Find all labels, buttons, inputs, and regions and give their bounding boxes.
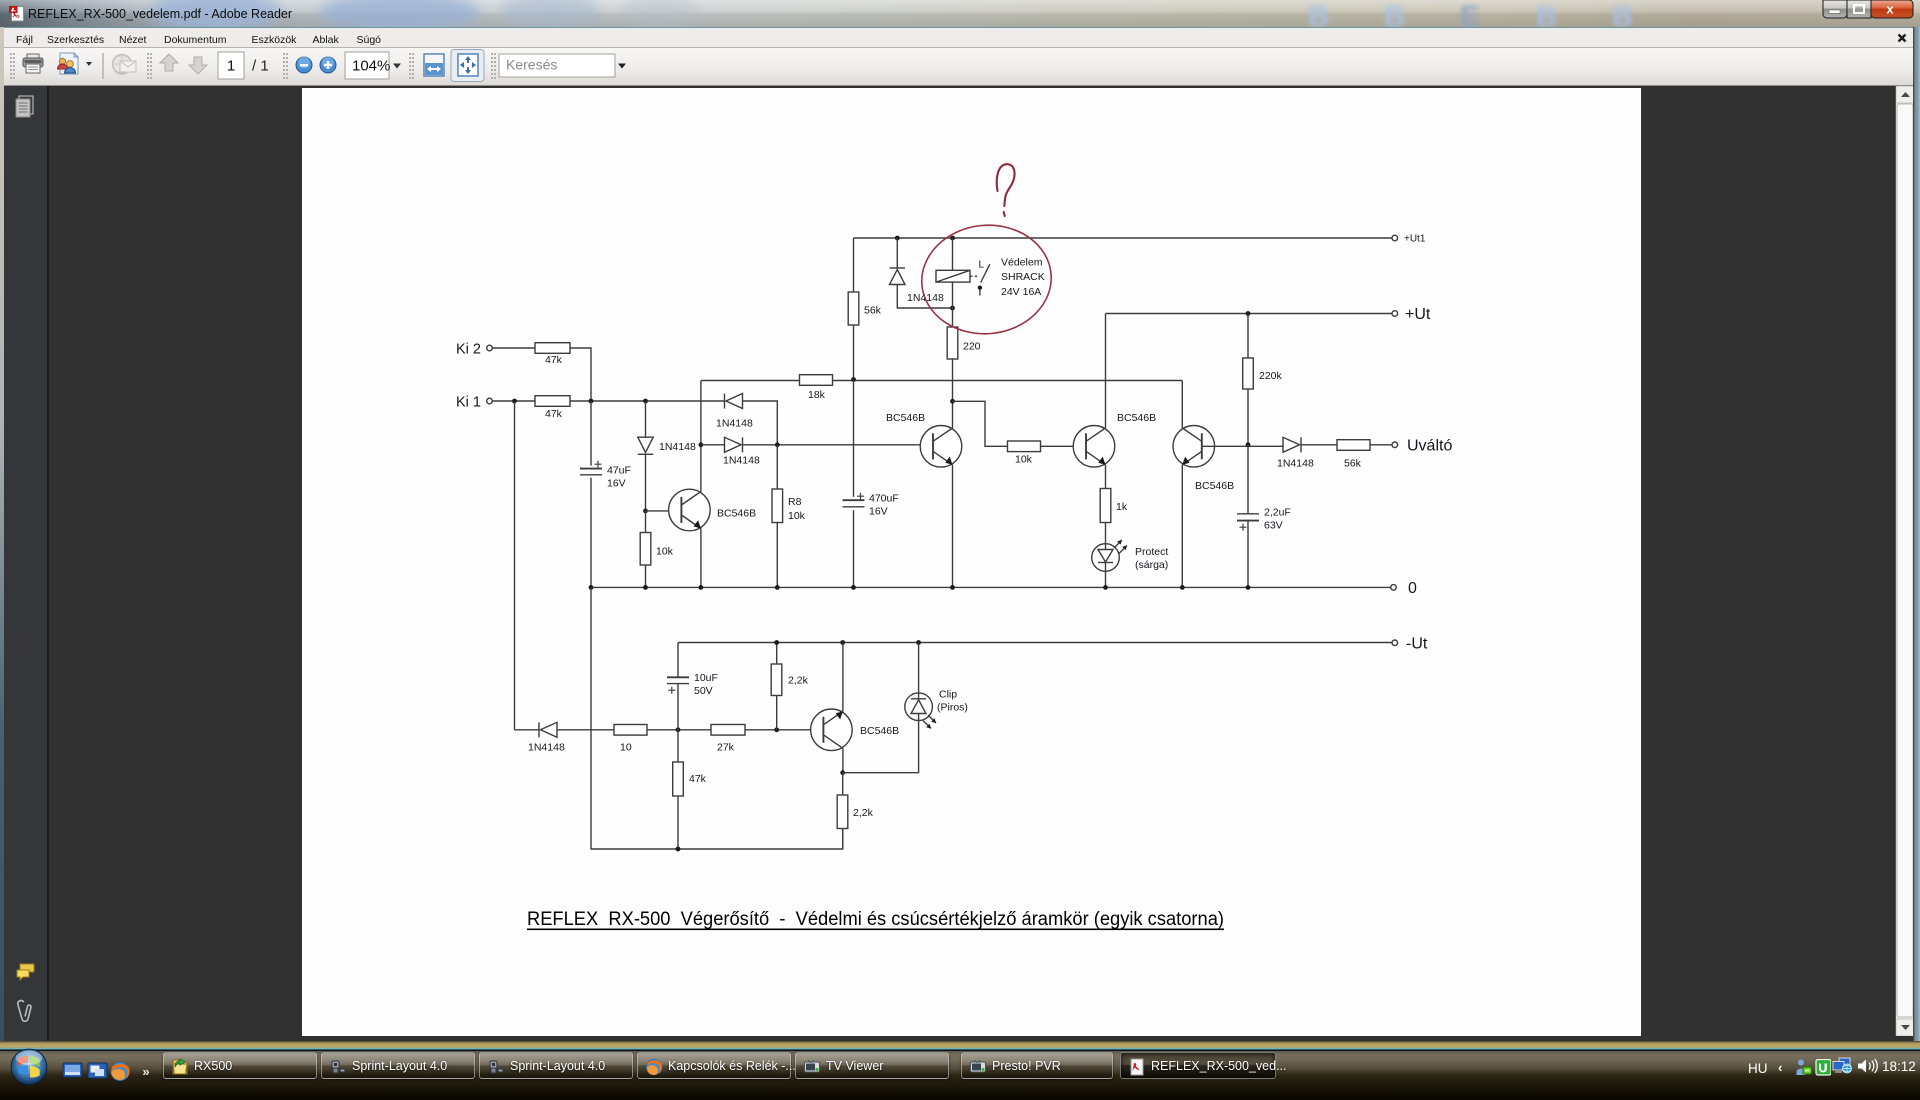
wire 27k to Q5 base (745, 729, 824, 731)
resistor 47k (Ki2) (535, 343, 570, 366)
svg-text:x: x (1886, 2, 1894, 17)
wire Q3 base to node (1202, 445, 1283, 447)
svg-text:10k: 10k (1015, 454, 1033, 466)
svg-text:220: 220 (963, 341, 981, 353)
wire 220 bottom to node (952, 359, 954, 401)
resistor 18k (800, 375, 833, 401)
svg-text:R8: R8 (788, 496, 802, 508)
svg-text:1k: 1k (1116, 501, 1128, 513)
resistor 27k (711, 725, 745, 754)
wire Ki1 branch down (514, 401, 516, 730)
svg-text:-Ut: -Ut (1406, 636, 1428, 653)
svg-text:1: 1 (227, 58, 235, 75)
svg-text:63V: 63V (1264, 520, 1283, 532)
nav arrows (160, 54, 207, 74)
wire Q1 emitter to 0 (952, 465, 954, 588)
capacitor 470uF 16V (843, 380, 899, 588)
task buttons (163, 1052, 317, 1079)
svg-text:(sárga): (sárga) (1135, 559, 1168, 571)
relay K1 coil (936, 270, 970, 282)
terminal 0 (1391, 580, 1417, 597)
svg-text:Védelem: Védelem (1001, 257, 1043, 269)
wire Q2 emitter (1105, 465, 1107, 489)
wire LED to -Ut (918, 643, 920, 693)
junction mid row / 470uF (851, 377, 856, 382)
wire 56k top feed (853, 238, 855, 292)
schematic title (527, 909, 1224, 930)
svg-text:1N4148: 1N4148 (723, 455, 760, 467)
svg-text:1N4148: 1N4148 (1277, 458, 1314, 470)
transistor Q2 BC546B (1073, 412, 1156, 467)
resistor 10k (Q4 base divider) (640, 511, 673, 588)
terminal Ki 2 (456, 342, 492, 358)
svg-text:REFLEX RX-500 Végerősítő -: REFLEX RX-500 Végerősítő - Védelmi és cs… (527, 909, 1224, 930)
svg-text:27k: 27k (717, 742, 735, 754)
svg-text:10k: 10k (788, 510, 806, 522)
wire Ki1 row (492, 400, 724, 402)
wire Q3 emitter to 0 (1181, 465, 1183, 588)
resistor 56k (Uváltó) (1337, 440, 1370, 470)
svg-text:BC546B: BC546B (860, 725, 899, 737)
resistor R8 10k (772, 445, 806, 588)
wire bottom return loop (591, 587, 843, 849)
email/globe icon greyed (113, 55, 137, 75)
svg-text:Protect: Protect (1135, 546, 1168, 558)
svg-text:2,2k: 2,2k (788, 675, 809, 687)
svg-text:2,2uF: 2,2uF (1264, 507, 1291, 519)
wire +Ut rail (1106, 313, 1393, 315)
svg-text:50V: 50V (694, 685, 713, 697)
svg-text:/ 1: / 1 (252, 58, 269, 75)
wire 220 top (952, 308, 954, 327)
svg-text:SHRACK: SHRACK (1001, 271, 1045, 283)
svg-text:Uváltó: Uváltó (1407, 438, 1452, 455)
svg-text:BC546B: BC546B (717, 508, 756, 520)
svg-text:16V: 16V (869, 506, 888, 518)
junction +Ut / 220k (1246, 311, 1251, 316)
svg-text:1N4148: 1N4148 (716, 418, 753, 430)
relay label Védelem SHRACK 24V 16A (1001, 257, 1045, 298)
zoom out / in (296, 57, 336, 74)
junction Q4 base node (643, 509, 648, 514)
wire Q5 emitter to -Ut (842, 643, 844, 712)
wire mid horizontal (18k row) (701, 380, 1182, 382)
diode D3 1N4148 (lower, points right) (701, 437, 934, 466)
svg-text:10uF: 10uF (694, 672, 718, 684)
collaborate icon (58, 53, 93, 74)
svg-text:16V: 16V (607, 478, 626, 490)
junction Uváltó node (1246, 442, 1251, 447)
diode D1 1N4148 (relay flyback) (890, 238, 953, 308)
junction Ki1/branch-down (512, 399, 517, 404)
wire Ki2 down leg (570, 348, 591, 401)
svg-text:47k: 47k (545, 354, 563, 366)
svg-text:BC546B: BC546B (886, 412, 925, 424)
junctions on -Ut rail (774, 640, 921, 645)
resistor 1k (1100, 489, 1128, 523)
red circle (annotation) (917, 220, 1056, 339)
wire Q5 collector (842, 748, 844, 772)
junction D3 row left (699, 442, 704, 447)
relay contact (switch) (978, 260, 990, 296)
svg-text:Clip: Clip (939, 689, 957, 701)
svg-text:(Piros): (Piros) (937, 702, 968, 714)
svg-text:470uF: 470uF (869, 493, 899, 505)
svg-text:56k: 56k (864, 305, 882, 317)
svg-text:L: L (978, 260, 984, 271)
junction +Ut1/relay (950, 236, 955, 241)
junction clip base node (676, 727, 681, 732)
terminal +Ut (1392, 306, 1431, 323)
svg-text:BC546B: BC546B (1195, 480, 1234, 492)
wire Q4 emitter to 0 (700, 529, 702, 588)
junction Q5 collector node (840, 770, 845, 775)
wire 56k to terminal (1370, 444, 1392, 446)
junction D3 row / R8 (775, 442, 780, 447)
capacitor 2,2uF 63V (1237, 445, 1291, 588)
resistor 10k (coupling) (1008, 441, 1041, 466)
resistor 10 (614, 725, 647, 754)
svg-text:1N4148: 1N4148 (528, 742, 565, 754)
search box (499, 54, 615, 77)
resistor 220k (1243, 358, 1283, 389)
capacitor 10uF 50V (667, 643, 718, 730)
wire Q1 collector (952, 401, 954, 428)
svg-text:47k: 47k (689, 773, 707, 785)
svg-text:18k: 18k (808, 389, 826, 401)
diode D5 1N4148 (points left) (515, 722, 615, 753)
resistor 47k (Ki1) (535, 396, 570, 420)
wire node to 10k (953, 401, 1008, 446)
wire 1k to LED (1105, 523, 1107, 544)
svg-text:BC546B: BC546B (1117, 412, 1156, 424)
svg-text:Ki 2: Ki 2 (456, 342, 481, 358)
printer icon (23, 54, 43, 73)
terminal Ki 1 (456, 395, 492, 411)
diode D6 1N4148 (vertical, points down) (638, 401, 696, 511)
wire 0 rail (591, 586, 1391, 588)
resistor 47k (bottom) (673, 730, 707, 849)
svg-text:10: 10 (620, 742, 632, 754)
svg-text:Ki 1: Ki 1 (456, 395, 481, 411)
quick launch (62, 1061, 152, 1083)
page box (218, 52, 244, 79)
transistor Q3 BC546B (mirrored) (1173, 426, 1234, 493)
fit width icon (424, 54, 444, 76)
transistor Q5 BC546B (clip) (811, 709, 900, 751)
wire collector node to LED (843, 721, 919, 773)
transistor Q4 BC546B (669, 489, 757, 531)
diode D2 1N4148 (upper, points left) (716, 394, 777, 445)
wire LED to 0 (1105, 571, 1107, 587)
svg-text:56k: 56k (1344, 458, 1362, 470)
resistor 56k (upper left) (848, 292, 881, 325)
svg-text:1N4148: 1N4148 (659, 441, 696, 453)
junction Ki1/47uF (589, 399, 594, 404)
svg-text:24V 16A: 24V 16A (1001, 286, 1041, 298)
svg-text:220k: 220k (1259, 370, 1283, 382)
svg-text:2,2k: 2,2k (853, 807, 874, 819)
wire 220k column (1247, 314, 1249, 445)
resistor 2,2k (to -Ut) (771, 643, 808, 730)
svg-text:+Ut1: +Ut1 (1404, 234, 1426, 245)
LED Clip (Piros) (905, 689, 968, 729)
junction bottom loop / 47k (676, 847, 681, 852)
terminal -Ut (1392, 636, 1428, 653)
resistor 220 (947, 327, 980, 359)
junction Q1 collector node (950, 399, 955, 404)
svg-text:»: » (142, 1064, 149, 1079)
wire left vertical (collector column Q4) (700, 381, 702, 492)
wire relay coil line (952, 238, 954, 308)
wire 10 to 27k (647, 729, 711, 731)
LED Protect (sárga) (1092, 540, 1169, 571)
svg-text:+Ut: +Ut (1405, 306, 1431, 323)
capacitor 47uF 16V (580, 401, 631, 587)
junction relay bottom (950, 306, 955, 311)
resistor 2,2k (collector) (837, 773, 873, 849)
wire 56k bottom (853, 325, 855, 380)
terminal Uváltó (1392, 438, 1452, 455)
relay dashed link (970, 275, 979, 277)
red question mark (annotation) (997, 164, 1015, 216)
svg-text:104%: 104% (352, 58, 390, 75)
junctions on 0 rail (589, 585, 1251, 590)
svg-text:0: 0 (1408, 580, 1417, 597)
wire +Ut1 rail (854, 237, 1393, 239)
wire -Ut rail (678, 642, 1392, 644)
diode D4 1N4148 (points right) (1277, 437, 1337, 469)
fit page icon (active) (451, 50, 484, 82)
wire Ki2 to 47k (492, 347, 535, 349)
svg-text:10k: 10k (656, 546, 674, 558)
svg-text:Keresés: Keresés (506, 57, 557, 73)
terminal +Ut1 (1392, 234, 1426, 245)
svg-text:47k: 47k (545, 408, 563, 420)
zoom box (345, 52, 389, 79)
wire Q4 base (646, 510, 682, 512)
wire 10k to Q2 base (1041, 445, 1087, 447)
wire Q3 collector (1181, 381, 1183, 429)
svg-text:47uF: 47uF (607, 465, 631, 477)
transistor Q1 BC546B (886, 412, 962, 467)
junction +Ut1/diode (895, 236, 900, 241)
junction 2,2k base node (774, 727, 779, 732)
wire Q2 collector to +Ut (1105, 314, 1107, 429)
junction Ki1/D6 (643, 399, 648, 404)
